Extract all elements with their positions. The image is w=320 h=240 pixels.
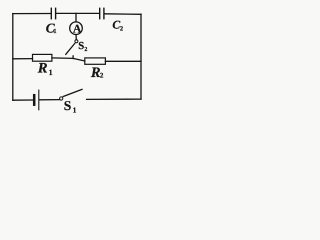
switch S2 lower contact stub — [72, 56, 74, 59]
battery negative plate (short thick) — [33, 95, 36, 105]
svg-text:1: 1 — [73, 105, 77, 114]
svg-text:R: R — [37, 61, 48, 77]
svg-text:2: 2 — [84, 47, 87, 53]
wire top-left to C1 — [13, 13, 51, 15]
resistor R2 — [85, 58, 106, 64]
svg-text:1: 1 — [49, 68, 53, 77]
wire ammeter to switch S2 — [75, 35, 77, 40]
wire bottom-left to battery — [13, 99, 33, 101]
switch S2 blade — [66, 44, 75, 55]
ammeter A — [70, 22, 83, 35]
capacitor C1 — [51, 8, 55, 18]
svg-text:A: A — [73, 21, 82, 35]
svg-text:1: 1 — [53, 28, 56, 35]
wire right vertical — [140, 14, 142, 99]
svg-text:S: S — [78, 40, 84, 52]
capacitor C2 — [100, 8, 104, 18]
wire middle-left to R1 — [13, 58, 33, 60]
wire ammeter stub top — [75, 13, 77, 22]
svg-text:2: 2 — [100, 71, 104, 79]
wire battery to switch S1 — [39, 99, 59, 101]
wire S1 to bottom-right — [87, 98, 141, 100]
svg-text:2: 2 — [120, 25, 123, 32]
switch S2 contact circle — [75, 40, 78, 43]
wire R2 to right vertical — [105, 60, 141, 62]
resistor R1 — [33, 54, 52, 61]
switch S1 blade — [63, 89, 82, 96]
svg-text:S: S — [64, 98, 72, 113]
wire R1 to R2 — [52, 58, 85, 61]
wire left vertical — [12, 14, 14, 101]
wire C1 to C2 (through ammeter tap) — [56, 12, 99, 14]
switch S1 contact circle — [60, 97, 63, 100]
wire C2 to top-right corner — [105, 13, 142, 16]
battery positive plate (long thin) — [38, 90, 40, 110]
